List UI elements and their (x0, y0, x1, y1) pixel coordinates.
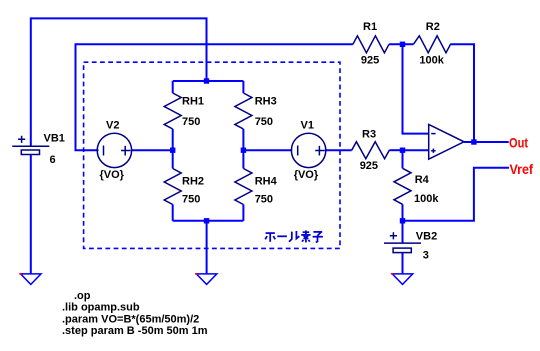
svg-text:{VO}: {VO} (294, 169, 319, 181)
svg-text:100k: 100k (419, 55, 444, 67)
svg-text:6: 6 (50, 154, 56, 166)
svg-text:RH2: RH2 (182, 176, 204, 188)
svg-text:VB1: VB1 (44, 133, 65, 145)
svg-text:.lib opamp.sub: .lib opamp.sub (62, 302, 140, 314)
svg-text:R1: R1 (363, 21, 377, 33)
svg-text:.param VO=B*(65m/50m)/2: .param VO=B*(65m/50m)/2 (62, 313, 199, 325)
svg-text:RH1: RH1 (182, 95, 204, 107)
svg-text:Vref: Vref (510, 162, 534, 177)
svg-text:750: 750 (255, 194, 273, 206)
svg-text:RH3: RH3 (255, 95, 277, 107)
svg-text:R2: R2 (426, 21, 440, 33)
svg-text:R3: R3 (362, 129, 376, 141)
svg-text:{VO}: {VO} (100, 169, 125, 181)
svg-text:750: 750 (255, 116, 273, 128)
svg-text:VB2: VB2 (416, 231, 437, 243)
svg-text:RH4: RH4 (255, 176, 278, 188)
svg-text:925: 925 (360, 160, 378, 172)
svg-text:750: 750 (182, 116, 200, 128)
svg-text:.op: .op (74, 290, 91, 302)
svg-text:3: 3 (423, 249, 429, 261)
svg-text:Out: Out (509, 135, 528, 150)
svg-text:V2: V2 (106, 120, 119, 132)
svg-text:925: 925 (361, 55, 379, 67)
svg-text:750: 750 (182, 194, 200, 206)
svg-text:R4: R4 (415, 174, 430, 186)
svg-text:V1: V1 (301, 120, 314, 132)
svg-text:.step param B -50m 50m 1m: .step param B -50m 50m 1m (62, 325, 208, 337)
svg-text:100k: 100k (414, 193, 439, 205)
